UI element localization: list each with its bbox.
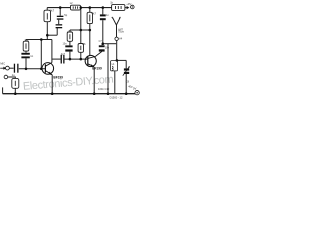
svg-text:4k7: 4k7 [49,8,54,12]
svg-text:4k7: 4k7 [91,11,96,15]
svg-text:C6: C6 [82,42,86,46]
svg-text:D1500 - 12: D1500 - 12 [110,95,123,99]
svg-text:MIC: MIC [0,61,5,65]
svg-text:10p: 10p [105,46,110,50]
svg-text:BF199: BF199 [53,76,63,80]
svg-text:75cm: 75cm [118,31,124,34]
svg-text:BF199: BF199 [92,67,102,71]
svg-text:λ/4: λ/4 [119,37,123,41]
svg-text:0V: 0V [133,87,137,91]
svg-text:1u: 1u [12,73,16,77]
svg-text:10n: 10n [63,42,68,45]
svg-text:+9V: +9V [126,2,131,6]
svg-text:100n C10: 100n C10 [98,87,110,91]
svg-text:4p7: 4p7 [61,52,66,56]
svg-text:47k: 47k [67,30,72,34]
svg-text:10k: 10k [24,38,29,42]
